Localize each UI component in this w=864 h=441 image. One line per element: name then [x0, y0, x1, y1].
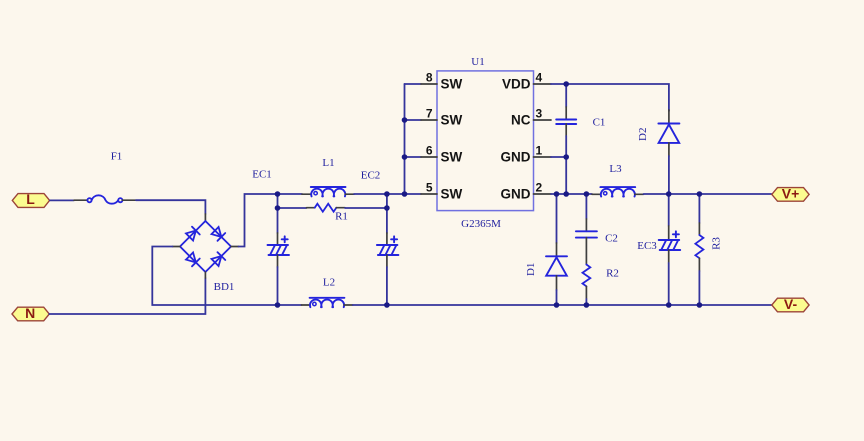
- port V-: [772, 296, 809, 312]
- capacitor C1 bottom pin: [565, 124, 567, 136]
- svg-text:1: 1: [536, 144, 543, 158]
- inductor L1: [311, 187, 346, 196]
- wire bus to pin 6: [405, 156, 422, 158]
- svg-text:F1: F1: [111, 151, 123, 163]
- wire R3 upper: [698, 194, 700, 223]
- svg-text:C1: C1: [593, 117, 606, 129]
- junction dot C1 VDD: [563, 81, 569, 87]
- inductor L2 right pin: [344, 304, 353, 306]
- wire L1 to chip bus: [354, 193, 421, 195]
- diode in BD1 bottom-left edge: [186, 253, 196, 263]
- wire bus pins 5-8: [404, 84, 406, 194]
- junction dot C1 GND1: [563, 154, 569, 160]
- pin 8: [421, 83, 437, 85]
- wire EC3 lower: [668, 263, 670, 305]
- wire pin2 to L3: [551, 193, 592, 195]
- junction dot D1 top: [554, 191, 560, 197]
- svg-text:EC3: EC3: [637, 240, 657, 252]
- port N: [12, 305, 49, 321]
- svg-text:N: N: [25, 305, 35, 321]
- fuse F1 left pin: [74, 199, 87, 201]
- resistor R3: [695, 235, 703, 258]
- inductor L1 left pin: [302, 193, 311, 195]
- wire fuse to bridge top: [136, 200, 205, 214]
- wire R1 row right: [345, 207, 387, 209]
- wire C1 top: [565, 84, 567, 107]
- pin 1: [534, 156, 552, 158]
- junction dot bus pin5: [402, 191, 408, 197]
- inductor L2: [310, 298, 345, 307]
- svg-text:EC1: EC1: [252, 169, 272, 181]
- capacitor C1: [556, 120, 576, 125]
- wire D2 lower: [668, 156, 670, 194]
- wire R2 lower: [585, 299, 587, 305]
- svg-text:L1: L1: [322, 157, 334, 169]
- bridge BD1 right pin: [231, 246, 239, 248]
- diode D1 top pin: [556, 243, 558, 256]
- svg-text:4: 4: [536, 71, 543, 85]
- wire R3 lower: [698, 271, 700, 305]
- bridge rectifier BD1: [180, 221, 231, 272]
- port V+: [772, 186, 809, 202]
- wire D2 upper: [668, 110, 670, 111]
- bridge BD1 top pin: [204, 214, 206, 221]
- capacitor EC1 bottom pin: [277, 255, 279, 267]
- pin 5: [421, 193, 437, 195]
- junction dot R3 bottom: [697, 302, 703, 308]
- wire minus rail to V-: [353, 304, 772, 306]
- wire VDD rail: [551, 84, 669, 110]
- capacitor C2 top pin: [585, 219, 587, 231]
- junction dot EC2 plus rail: [384, 191, 390, 197]
- svg-text:L2: L2: [323, 277, 335, 289]
- wire C1 bottom to GND rows: [565, 136, 567, 194]
- inductor L3: [600, 187, 635, 196]
- wire L to fuse: [50, 199, 74, 201]
- svg-text:8: 8: [426, 71, 433, 85]
- resistor R1 right pin: [336, 207, 345, 209]
- inductor L3 left pin: [592, 193, 601, 195]
- svg-text:BD1: BD1: [214, 281, 235, 293]
- capacitor C2: [576, 231, 597, 237]
- wire EC3 upper: [668, 194, 670, 226]
- wire C2 upper: [585, 194, 587, 219]
- pin 3: [534, 119, 552, 121]
- svg-text:SW: SW: [441, 77, 463, 92]
- svg-text:GND: GND: [501, 187, 531, 202]
- fuse F1: [87, 195, 122, 203]
- svg-text:R3: R3: [711, 237, 723, 250]
- resistor R3 bottom pin: [698, 258, 700, 271]
- resistor R2: [583, 265, 591, 287]
- svg-text:NC: NC: [511, 113, 531, 128]
- pin 2: [534, 193, 552, 195]
- junction dot bus pin6: [402, 154, 408, 160]
- capacitor EC2: [377, 236, 399, 255]
- capacitor EC2 bottom pin: [386, 255, 388, 267]
- junction dot EC1 R1 row: [275, 205, 281, 211]
- svg-text:G2365M: G2365M: [461, 218, 501, 230]
- junction dot C1 bottom: [563, 191, 569, 197]
- svg-text:3: 3: [536, 107, 543, 121]
- junction dot EC1 minus rail: [275, 302, 281, 308]
- wire EC1 vertical upper: [277, 194, 279, 233]
- wire EC1 vertical lower: [277, 267, 279, 305]
- wire pin1 to C1 line: [551, 156, 566, 158]
- capacitor EC3 top pin: [668, 226, 670, 240]
- inductor L1 right pin: [345, 193, 354, 195]
- svg-text:6: 6: [426, 144, 433, 158]
- capacitor C2 bottom pin / resistor R2 top pin: [585, 238, 587, 265]
- capacitor EC3: [659, 231, 681, 250]
- junction dot R2 bottom: [584, 302, 590, 308]
- svg-text:C2: C2: [605, 233, 618, 245]
- diode D2 bottom pin: [668, 143, 670, 156]
- svg-text:V-: V-: [784, 296, 798, 312]
- bridge BD1 left pin: [173, 246, 181, 248]
- resistor R1 left pin: [307, 207, 315, 209]
- junction dot EC2 R1 row: [384, 205, 390, 211]
- svg-text:D1: D1: [525, 263, 537, 276]
- wire N to bridge bottom: [49, 278, 205, 314]
- diode in BD1 bottom-right edge: [211, 256, 221, 266]
- svg-text:R1: R1: [335, 211, 348, 223]
- diode D2: [658, 124, 679, 143]
- diode D2 top pin: [668, 110, 670, 124]
- junction dot EC2 minus rail: [384, 302, 390, 308]
- capacitor EC1: [268, 236, 290, 255]
- svg-text:L3: L3: [609, 163, 622, 175]
- diode in BD1 top-left edge: [186, 231, 196, 241]
- junction dot bus pin7: [402, 117, 408, 123]
- junction dot D2 EC3 rail: [666, 191, 672, 197]
- wire D1 lower: [556, 290, 558, 305]
- capacitor EC1 top pin: [277, 233, 279, 245]
- svg-text:7: 7: [426, 107, 433, 121]
- svg-text:D2: D2: [637, 127, 649, 140]
- capacitor EC2 top pin: [386, 233, 388, 245]
- wire R1 row left: [278, 207, 307, 209]
- wire bus to pin 7: [405, 119, 422, 121]
- fuse F1 right pin: [122, 199, 136, 201]
- svg-text:U1: U1: [471, 56, 484, 68]
- wire bridge right vertex up to plus rail: [239, 194, 303, 247]
- resistor R3 top pin: [698, 223, 700, 235]
- diode D1 bottom pin: [556, 276, 558, 290]
- diode D1: [546, 256, 567, 275]
- capacitor C1 top pin: [565, 107, 567, 120]
- inductor L3 right pin: [635, 193, 644, 195]
- inductor L2 left pin: [302, 304, 311, 306]
- bridge BD1 bottom pin: [204, 272, 206, 278]
- capacitor EC3 bottom pin: [668, 250, 670, 263]
- junction dot EC1 plus rail: [275, 191, 281, 197]
- chip U1 body: [437, 71, 534, 211]
- pin 4: [534, 83, 552, 85]
- junction dot C2 top: [584, 191, 590, 197]
- junction dot D1 bottom: [554, 302, 560, 308]
- wire L3 to V+: [644, 193, 772, 195]
- resistor R1: [315, 204, 337, 212]
- svg-text:SW: SW: [441, 187, 463, 202]
- svg-text:GND: GND: [501, 150, 531, 165]
- port L: [12, 191, 49, 207]
- wire EC2 vertical lower: [386, 267, 388, 305]
- wire D1 upper: [556, 194, 558, 243]
- svg-text:V+: V+: [782, 186, 800, 202]
- svg-text:2: 2: [536, 181, 543, 195]
- junction dot R3 top: [697, 191, 703, 197]
- svg-text:SW: SW: [441, 150, 463, 165]
- svg-text:VDD: VDD: [502, 77, 531, 92]
- wire bridge left vertex down to minus rail: [152, 247, 301, 306]
- wire bus to pin 8: [405, 83, 422, 85]
- resistor R2 bottom pin: [585, 286, 587, 299]
- wire EC2 vertical upper: [386, 194, 388, 233]
- diode in BD1 top-right edge: [211, 227, 221, 237]
- pin 6: [421, 156, 437, 158]
- junction dot EC3 bottom: [666, 302, 672, 308]
- svg-text:EC2: EC2: [361, 170, 381, 182]
- svg-text:L: L: [26, 191, 35, 207]
- pin 7: [421, 119, 437, 121]
- svg-text:5: 5: [426, 181, 433, 195]
- svg-text:R2: R2: [606, 268, 619, 280]
- svg-text:SW: SW: [441, 113, 463, 128]
